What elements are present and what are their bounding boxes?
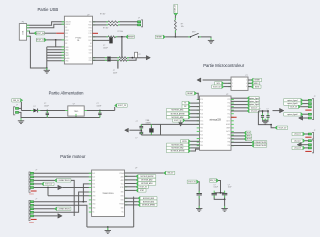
svg-text:C?: C?	[259, 109, 261, 111]
svg-text:CB1: CB1	[89, 60, 92, 62]
svg-text:PC3: PC3	[227, 106, 230, 108]
svg-text:VM3: VM3	[92, 195, 95, 197]
svg-text:10uF: 10uF	[228, 187, 232, 189]
svg-text:PB5: PB5	[228, 135, 231, 137]
svg-text:atmega328: atmega328	[209, 118, 221, 121]
svg-text:PB2: PB2	[228, 145, 231, 147]
svg-text:VOUT_5V: VOUT_5V	[140, 186, 148, 188]
svg-text:C?: C?	[136, 121, 138, 123]
svg-text:P1: P1	[22, 22, 24, 24]
svg-text:R? 10k: R? 10k	[118, 31, 124, 33]
svg-text:CONNECTEUR1: CONNECTEUR1	[58, 180, 70, 182]
svg-text:VOUT_5V: VOUT_5V	[45, 183, 53, 185]
svg-text:C?: C?	[214, 184, 216, 186]
svg-text:R?: R?	[139, 54, 141, 56]
svg-text:GND: GND	[121, 192, 124, 194]
svg-text:moins: moins	[29, 222, 34, 224]
svg-text:J?: J?	[16, 105, 18, 107]
svg-text:RST: RST	[65, 37, 68, 39]
svg-text:VIN_5V: VIN_5V	[167, 173, 174, 175]
svg-text:VOUT_3V: VOUT_3V	[36, 33, 45, 35]
svg-text:CB3: CB3	[89, 49, 92, 51]
svg-text:D?: D?	[34, 106, 36, 108]
svg-text:PB6: PB6	[200, 127, 203, 129]
svg-text:Partie Microcontroleur: Partie Microcontroleur	[203, 63, 245, 68]
svg-text:CONNECTEUR2: CONNECTEUR2	[254, 145, 266, 147]
svg-text:R?: R?	[181, 24, 183, 26]
svg-text:PC2: PC2	[227, 110, 230, 112]
svg-text:MOTEUR_BPWM: MOTEUR_BPWM	[142, 204, 155, 206]
svg-text:MOSI: MOSI	[247, 139, 252, 141]
svg-text:PB3: PB3	[228, 142, 231, 144]
svg-text:GND: GND	[121, 207, 124, 209]
svg-text:moins: moins	[29, 194, 34, 196]
svg-text:100uF: 100uF	[214, 187, 219, 189]
svg-text:BO1: BO1	[92, 183, 95, 185]
svg-text:C?: C?	[113, 70, 115, 72]
svg-text:U?: U?	[135, 167, 137, 169]
svg-text:GND: GND	[200, 124, 203, 126]
svg-text:3V3: 3V3	[65, 33, 68, 35]
svg-text:J?: J?	[35, 198, 37, 200]
svg-text:RESET: RESET	[255, 80, 261, 82]
svg-text:J?: J?	[35, 170, 37, 172]
svg-text:100nF: 100nF	[44, 106, 49, 108]
svg-text:VOUT_5V: VOUT_5V	[174, 120, 183, 122]
svg-text:MOTEUR_BIN1: MOTEUR_BIN1	[143, 198, 154, 200]
svg-text:PD1: PD1	[200, 106, 203, 108]
svg-text:GND: GND	[92, 204, 95, 206]
svg-text:RTS: RTS	[89, 28, 92, 30]
svg-text:DIN_5V: DIN_5V	[13, 100, 20, 102]
svg-text:C?: C?	[228, 184, 230, 186]
svg-text:RESET: RESET	[187, 93, 194, 95]
svg-text:R? 4k7: R? 4k7	[103, 27, 108, 29]
svg-text:100nF: 100nF	[103, 47, 108, 49]
svg-text:NC: NC	[122, 212, 124, 214]
svg-text:10k: 10k	[181, 26, 184, 28]
svg-text:VM2: VM2	[92, 192, 95, 194]
svg-text:PD5: PD5	[200, 135, 203, 137]
svg-text:MISO: MISO	[254, 83, 259, 85]
svg-text:Partie USB: Partie USB	[38, 7, 59, 12]
svg-text:PD4: PD4	[200, 117, 203, 119]
svg-text:PB0: PB0	[200, 145, 203, 147]
svg-text:C?: C?	[267, 109, 269, 111]
svg-text:USBDP: USBDP	[65, 24, 70, 26]
svg-text:Partie moteur: Partie moteur	[60, 154, 86, 159]
svg-text:STBY: STBY	[120, 187, 124, 189]
svg-text:VOUT_5V: VOUT_5V	[36, 40, 45, 42]
svg-text:16MHz: 16MHz	[146, 122, 152, 124]
svg-text:VM1: VM1	[92, 187, 95, 189]
svg-text:J?: J?	[314, 130, 316, 132]
svg-text:PD7: PD7	[200, 142, 203, 144]
svg-text:PB7: PB7	[200, 131, 203, 133]
svg-text:U?: U?	[73, 104, 75, 106]
svg-text:PC1: PC1	[227, 113, 230, 115]
svg-text:TEST: TEST	[65, 55, 69, 57]
svg-text:BIN1: BIN1	[121, 195, 124, 197]
svg-text:VOUT_5V: VOUT_5V	[175, 4, 177, 13]
svg-text:U?: U?	[87, 14, 89, 16]
svg-text:U?: U?	[226, 94, 228, 96]
svg-text:USBDM: USBDM	[65, 21, 71, 23]
svg-text:GND: GND	[92, 207, 95, 209]
svg-text:RESET: RESET	[128, 36, 135, 38]
svg-text:TB6612FNG: TB6612FNG	[102, 193, 114, 195]
svg-text:SW?: SW?	[192, 31, 196, 33]
svg-text:VOUT_5V: VOUT_5V	[279, 127, 288, 129]
svg-text:VOUT_5V: VOUT_5V	[188, 181, 197, 183]
svg-text:Partie Alimentation: Partie Alimentation	[49, 90, 85, 95]
svg-text:RESET: RESET	[156, 37, 163, 39]
svg-text:USB: USB	[23, 30, 25, 35]
svg-text:P?: P?	[246, 75, 248, 77]
svg-text:J?: J?	[314, 96, 316, 98]
svg-text:MOSI: MOSI	[255, 86, 260, 88]
svg-text:PB4: PB4	[228, 138, 231, 140]
svg-text:BO2: BO2	[92, 180, 95, 182]
svg-text:PD0: PD0	[200, 103, 203, 105]
svg-text:NC: NC	[92, 212, 94, 214]
svg-text:BIN2: BIN2	[121, 199, 124, 201]
svg-text:CB4: CB4	[89, 46, 92, 48]
svg-text:CTS: CTS	[89, 31, 92, 33]
svg-text:VOUT_5V: VOUT_5V	[118, 105, 127, 107]
svg-text:C?: C?	[135, 138, 137, 140]
svg-text:MOTEUR_APWM: MOTEUR_APWM	[171, 112, 185, 115]
svg-text:CB0: CB0	[89, 57, 92, 59]
svg-text:GND: GND	[92, 199, 95, 201]
svg-text:PWMB: PWMB	[119, 204, 123, 206]
svg-text:PC4: PC4	[227, 103, 230, 105]
svg-text:VOUT_5V: VOUT_5V	[213, 86, 222, 88]
svg-text:PD2: PD2	[200, 110, 203, 112]
svg-text:PC6: PC6	[200, 99, 203, 101]
svg-text:J?: J?	[138, 18, 140, 20]
svg-text:CB2: CB2	[89, 52, 92, 54]
svg-text:VCC: VCC	[121, 183, 124, 185]
svg-text:VCC: VCC	[200, 120, 203, 122]
svg-text:PD6: PD6	[200, 138, 203, 140]
svg-text:R? 4k7: R? 4k7	[100, 14, 105, 16]
svg-text:100nF: 100nF	[97, 106, 102, 108]
svg-text:MOTEUR_AIN2: MOTEUR_AIN2	[171, 116, 183, 119]
svg-text:PD3: PD3	[200, 113, 203, 115]
svg-text:PC5: PC5	[227, 99, 230, 101]
svg-text:MOTEUR_AIN1: MOTEUR_AIN1	[171, 109, 183, 112]
svg-text:OSCI: OSCI	[65, 30, 69, 32]
svg-text:DIN_5V: DIN_5V	[210, 180, 217, 182]
svg-text:100nF: 100nF	[113, 73, 117, 75]
svg-text:MOTEUR_BPWM: MOTEUR_BPWM	[171, 151, 185, 153]
svg-text:VOUT_5V: VOUT_5V	[290, 106, 298, 108]
svg-text:CONNECTEUR2: CONNECTEUR2	[58, 208, 70, 210]
svg-text:PC0: PC0	[227, 117, 230, 119]
